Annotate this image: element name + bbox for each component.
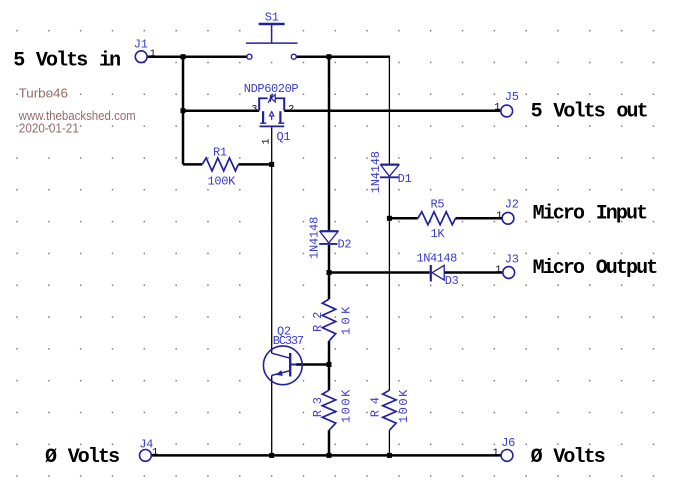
svg-text:Ø Volts: Ø Volts — [531, 446, 605, 469]
svg-text:1: 1 — [152, 448, 158, 459]
svg-text:1K: 1K — [431, 227, 446, 241]
svg-text:Micro Output: Micro Output — [533, 257, 658, 280]
svg-text:J4: J4 — [139, 438, 153, 452]
svg-text:S1: S1 — [265, 11, 279, 25]
svg-text:5 Volts in: 5 Volts in — [13, 50, 120, 73]
svg-text:Ø Volts: Ø Volts — [45, 446, 119, 469]
svg-text:1: 1 — [495, 265, 501, 276]
svg-text:100K: 100K — [208, 175, 237, 189]
svg-text:J5: J5 — [505, 90, 519, 104]
svg-text:1: 1 — [150, 49, 156, 60]
svg-text:1N4148: 1N4148 — [307, 217, 321, 259]
svg-text:Q1: Q1 — [277, 130, 291, 144]
svg-text:J2: J2 — [505, 198, 519, 212]
svg-text:R1: R1 — [213, 146, 227, 160]
svg-text:1: 1 — [493, 448, 499, 459]
svg-text:5 Volts out: 5 Volts out — [531, 101, 648, 124]
svg-text:1: 1 — [494, 102, 500, 113]
svg-text:J3: J3 — [505, 253, 519, 267]
svg-text:2: 2 — [288, 104, 294, 115]
svg-text:2020-01-21: 2020-01-21 — [19, 121, 79, 136]
svg-text:D1: D1 — [398, 172, 412, 186]
svg-text:3: 3 — [251, 104, 257, 115]
svg-text:D3: D3 — [445, 274, 459, 288]
svg-text:J6: J6 — [501, 436, 515, 450]
svg-text:1: 1 — [496, 211, 502, 222]
svg-text:D2: D2 — [338, 237, 352, 251]
svg-text:Turbo46: Turbo46 — [19, 86, 68, 101]
svg-text:Micro Input: Micro Input — [533, 203, 648, 226]
svg-text:100K: 100K — [339, 389, 353, 423]
svg-text:1N4148: 1N4148 — [417, 252, 458, 266]
svg-text:NDP6020P: NDP6020P — [244, 82, 299, 96]
svg-text:R5: R5 — [431, 198, 445, 212]
svg-text:J1: J1 — [134, 37, 148, 51]
svg-text:100K: 100K — [397, 389, 411, 423]
svg-text:10K: 10K — [339, 306, 353, 335]
svg-text:1: 1 — [262, 138, 273, 144]
svg-text:1N4148: 1N4148 — [369, 151, 383, 193]
svg-text:BC337: BC337 — [273, 334, 304, 348]
